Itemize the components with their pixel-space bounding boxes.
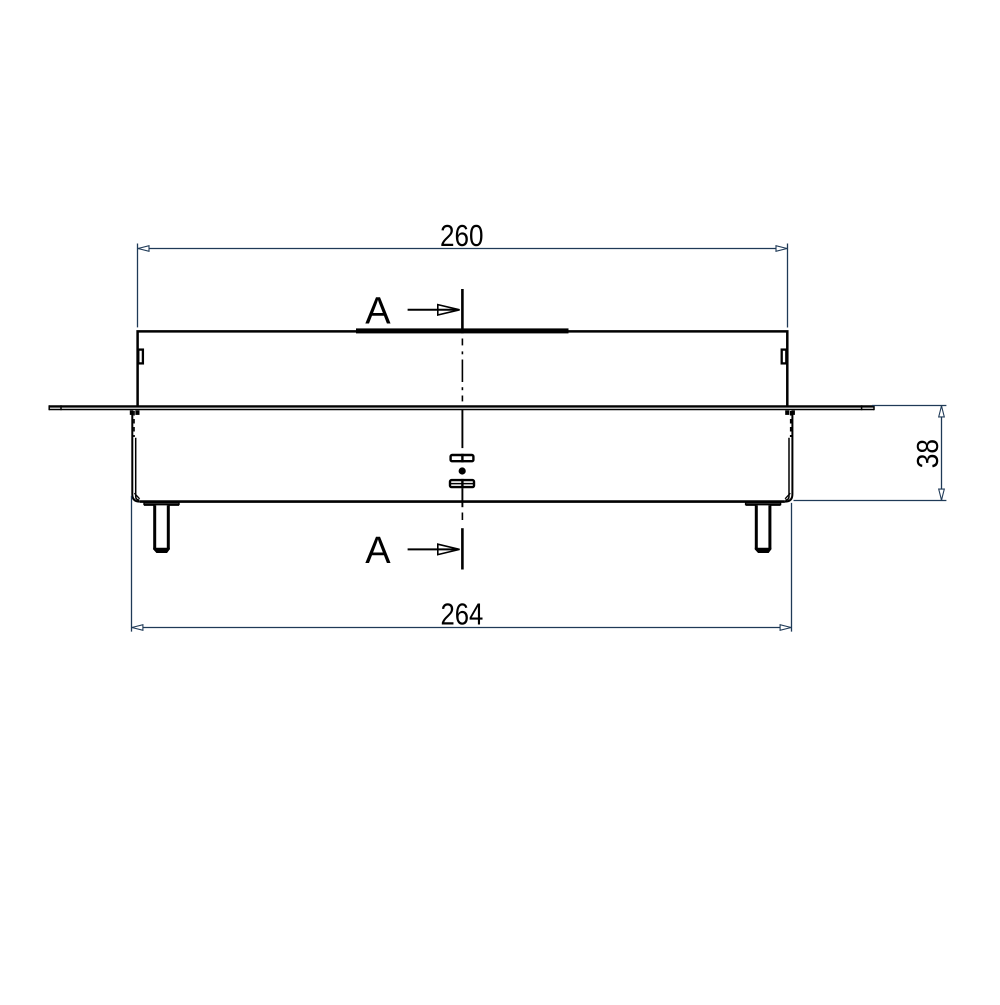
lower body left inner wall xyxy=(136,438,140,500)
flange left lip tick xyxy=(60,405,62,410)
lower body bottom edge xyxy=(140,500,785,503)
lower body right hidden edge dashes xyxy=(790,411,792,437)
left leg xyxy=(155,505,169,551)
section arrow bottom open head xyxy=(438,544,460,554)
dimension 260: left extension line xyxy=(137,244,139,328)
svg-text:A: A xyxy=(365,291,391,333)
section line: dash below body xyxy=(461,513,463,521)
nut bar xyxy=(450,480,474,487)
dimension 38: bottom arrowhead xyxy=(939,489,945,500)
dimension 260: right extension line xyxy=(787,244,789,328)
dimension 38: bottom extension line xyxy=(794,500,947,502)
dimension 260: right arrowhead xyxy=(776,246,787,252)
svg-text:A: A xyxy=(365,530,391,572)
right clamp block under flange xyxy=(792,410,795,415)
dimension 260: left arrowhead xyxy=(138,246,149,252)
svg-text:260: 260 xyxy=(440,219,484,253)
flange left end cap xyxy=(48,405,50,410)
section line: solid segment through lower body xyxy=(461,410,463,448)
dimension 264: right extension line xyxy=(791,503,793,632)
dimension 38: dimension line xyxy=(941,406,943,501)
section line: top thick segment xyxy=(461,289,464,333)
flange right lip tick xyxy=(861,405,863,410)
left inner corner diagonal tick xyxy=(134,493,139,499)
left leg mounting plate xyxy=(144,502,179,504)
lower body left hidden edge dashes xyxy=(133,411,135,437)
dimension 264: left extension line xyxy=(131,496,133,632)
left clamp block under flange xyxy=(130,410,133,415)
upper body outline xyxy=(138,331,788,406)
dimension 264: left arrowhead xyxy=(132,625,143,631)
dimension 38: top extension line xyxy=(872,405,946,407)
dimension 264: right arrowhead xyxy=(780,625,791,631)
burner slot thick bar on top edge xyxy=(356,328,569,333)
section line: solid segment through bottom edge xyxy=(461,489,463,508)
section arrow top shaft xyxy=(408,309,458,311)
right leg xyxy=(756,505,770,551)
lower body left outer wall with bottom fillet xyxy=(132,411,140,502)
flange top line xyxy=(49,405,874,407)
flange right end cap xyxy=(873,405,875,410)
screw dot xyxy=(459,467,466,474)
section arrow top open head xyxy=(438,305,460,315)
left wall tab xyxy=(138,350,143,364)
dimension 38: top arrowhead xyxy=(939,406,945,417)
dimension 264: dimension line xyxy=(132,627,792,629)
section arrow bottom shaft xyxy=(408,548,458,550)
svg-text:38: 38 xyxy=(911,439,945,468)
lower body right inner wall xyxy=(785,438,789,500)
lower body right outer wall with bottom fillet xyxy=(785,411,793,502)
section line: bottom thick segment xyxy=(461,528,464,569)
screw head bar xyxy=(451,455,474,461)
svg-text:264: 264 xyxy=(441,598,484,632)
section line: dash-dot segments upper xyxy=(461,339,463,346)
dimension 260: dimension line xyxy=(138,248,788,250)
right inner corner diagonal tick xyxy=(785,493,790,499)
right leg mounting plate xyxy=(746,502,781,504)
flange bottom line xyxy=(49,409,874,411)
right wall tab xyxy=(782,350,787,364)
